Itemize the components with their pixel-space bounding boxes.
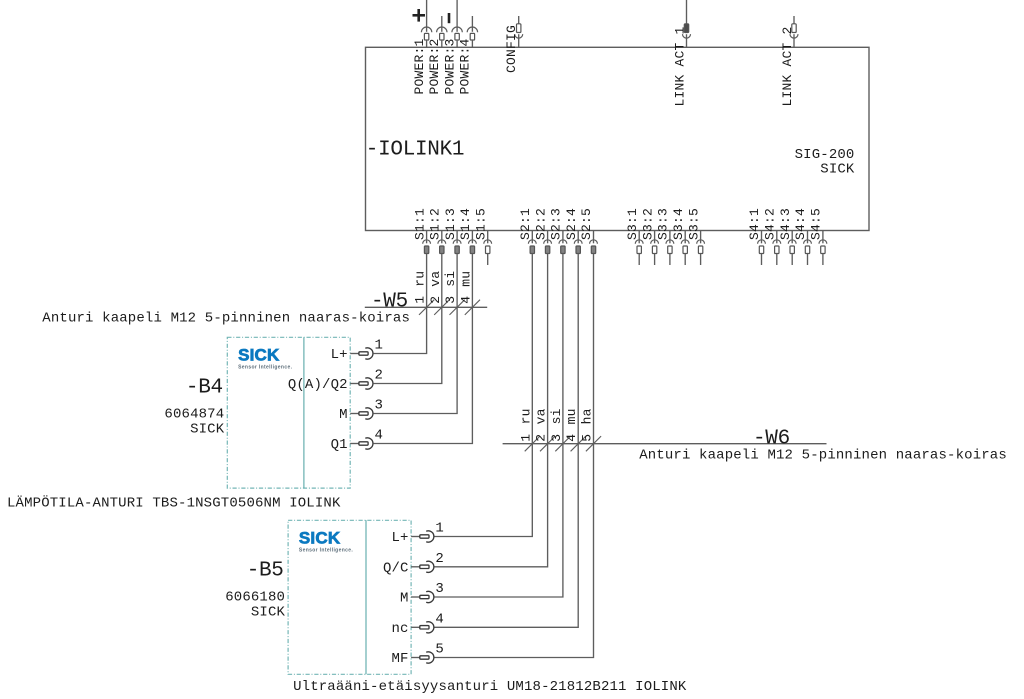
svg-text:mu: mu xyxy=(458,271,473,287)
cable -W6 conductor 1 slash xyxy=(525,436,540,451)
svg-text:S1:5: S1:5 xyxy=(473,208,488,240)
port pin S3:1 xyxy=(635,231,643,266)
cable -W6 conductor 3 slash xyxy=(555,436,570,451)
svg-text:Anturi kaapeli M12 5-pinninen: Anturi kaapeli M12 5-pinninen naaras-koi… xyxy=(42,311,410,327)
terminal pin POWER:4 xyxy=(467,27,477,47)
svg-text:S1:1: S1:1 xyxy=(412,208,427,240)
svg-text:ru: ru xyxy=(413,271,428,287)
svg-text:3: 3 xyxy=(435,581,444,597)
svg-text:3: 3 xyxy=(549,434,564,442)
wire S2:5 to -B5 pin 5 xyxy=(435,254,594,658)
port pin S3:3 xyxy=(666,231,674,266)
port pin S2:3 xyxy=(559,231,567,254)
svg-text:S4:1: S4:1 xyxy=(747,208,762,240)
sensor -B5 box xyxy=(288,520,411,674)
-B4 pin 1 connector symbol xyxy=(350,348,373,359)
-B5 pin 1 connector symbol xyxy=(411,531,434,542)
device box -IOLINK1 (SIG-200) xyxy=(366,47,870,230)
-B4 pin 2 connector symbol xyxy=(350,378,373,389)
svg-text:LINK ACT 1: LINK ACT 1 xyxy=(673,26,688,106)
port pin S4:3 xyxy=(788,231,796,266)
svg-text:5: 5 xyxy=(435,642,444,658)
port pin S3:2 xyxy=(651,231,659,266)
svg-text:MF: MF xyxy=(391,651,408,667)
wire to terminal POWER:2 xyxy=(441,16,443,32)
svg-text:4: 4 xyxy=(375,428,384,444)
svg-text:SICK: SICK xyxy=(238,345,280,364)
cable -W6 line xyxy=(503,443,827,445)
svg-text:Sensor Intelligence.: Sensor Intelligence. xyxy=(238,365,292,371)
svg-text:5: 5 xyxy=(580,434,595,442)
svg-text:Q(A)/Q2: Q(A)/Q2 xyxy=(288,377,348,393)
svg-text:S3:1: S3:1 xyxy=(625,208,640,240)
svg-text:SICK: SICK xyxy=(190,421,225,437)
port pin S2:4 xyxy=(574,231,582,254)
svg-text:2: 2 xyxy=(435,551,444,567)
svg-text:S3:3: S3:3 xyxy=(656,208,671,240)
svg-text:S3:2: S3:2 xyxy=(640,208,655,240)
svg-text:Sensor Intelligence.: Sensor Intelligence. xyxy=(299,548,353,554)
svg-text:4: 4 xyxy=(435,612,444,628)
port pin S4:2 xyxy=(773,231,781,266)
svg-text:S4:2: S4:2 xyxy=(763,208,778,240)
wire to terminal LINK ACT 1 xyxy=(686,0,688,24)
wire to terminal POWER:3 xyxy=(456,0,458,32)
wire S2:4 to -B5 pin 4 xyxy=(435,254,579,628)
svg-text:S4:3: S4:3 xyxy=(778,208,793,240)
svg-text:S1:4: S1:4 xyxy=(458,208,473,240)
svg-text:L+: L+ xyxy=(391,530,408,546)
terminal pin CONFIG xyxy=(515,24,523,48)
svg-text:2: 2 xyxy=(428,296,443,304)
port pin S1:2 xyxy=(438,231,446,254)
polarity - symbol xyxy=(448,13,451,23)
svg-text:Ultraääni-etäisyysanturi UM18-: Ultraääni-etäisyysanturi UM18-21812B211 … xyxy=(293,679,687,695)
svg-text:M: M xyxy=(400,591,409,607)
svg-text:mu: mu xyxy=(564,408,579,424)
wire to terminal POWER:4 xyxy=(471,16,473,32)
cable -W6 conductor 5 slash xyxy=(586,436,601,451)
port pin S1:3 xyxy=(453,231,461,254)
cable -W5 conductor 3 slash xyxy=(450,300,465,315)
terminal pin LINK ACT 2 xyxy=(790,24,798,48)
-B5 pin 2 connector symbol xyxy=(411,561,434,572)
svg-text:6066180: 6066180 xyxy=(225,589,285,605)
svg-text:LINK ACT 2: LINK ACT 2 xyxy=(780,26,795,106)
cable -W5 conductor 2 slash xyxy=(434,300,449,315)
svg-text:S4:4: S4:4 xyxy=(793,208,808,240)
sensor -B5 inner divider xyxy=(365,520,367,674)
svg-text:si: si xyxy=(443,271,458,287)
wire to terminal CONFIG xyxy=(518,16,520,24)
port pin S4:1 xyxy=(758,231,766,266)
port pin S4:4 xyxy=(804,231,812,266)
svg-text:SICK: SICK xyxy=(251,604,286,620)
svg-text:POWER:1: POWER:1 xyxy=(412,38,427,94)
svg-text:-B4: -B4 xyxy=(186,376,223,399)
-B4 pin 4 connector symbol xyxy=(350,438,373,449)
wire S2:1 to -B5 pin 1 xyxy=(435,254,533,537)
svg-text:S2:3: S2:3 xyxy=(549,208,564,240)
svg-text:SICK: SICK xyxy=(299,528,341,547)
port pin S1:5 xyxy=(484,231,492,266)
svg-text:S2:5: S2:5 xyxy=(579,208,594,240)
svg-text:6064874: 6064874 xyxy=(164,406,224,422)
svg-text:ru: ru xyxy=(518,408,533,424)
svg-text:Anturi kaapeli M12 5-pinninen: Anturi kaapeli M12 5-pinninen naaras-koi… xyxy=(639,448,1007,464)
svg-text:S3:4: S3:4 xyxy=(671,208,686,240)
svg-text:S4:5: S4:5 xyxy=(809,208,824,240)
svg-text:S1:3: S1:3 xyxy=(443,208,458,240)
svg-text:S2:2: S2:2 xyxy=(533,208,548,240)
wire S1:1 to -B4 pin 1 xyxy=(374,254,427,354)
svg-text:2: 2 xyxy=(534,434,549,442)
svg-text:4: 4 xyxy=(458,296,473,304)
sensor -B4 box xyxy=(227,337,350,488)
svg-text:S2:4: S2:4 xyxy=(564,208,579,240)
wire S1:4 to -B4 pin 4 xyxy=(374,254,473,444)
port pin S1:1 xyxy=(423,231,431,254)
terminal pin POWER:2 xyxy=(437,27,447,47)
port pin S1:4 xyxy=(468,231,476,254)
svg-text:POWER:3: POWER:3 xyxy=(442,38,457,94)
wire to terminal LINK ACT 2 xyxy=(793,16,795,24)
cable -W5 conductor 4 slash xyxy=(465,300,480,315)
svg-text:va: va xyxy=(534,408,549,424)
svg-text:S1:2: S1:2 xyxy=(428,208,443,240)
svg-text:3: 3 xyxy=(375,398,384,414)
svg-text:M: M xyxy=(339,407,348,423)
svg-text:va: va xyxy=(428,271,443,287)
cable -W5 conductor 1 slash xyxy=(419,300,434,315)
-B5 pin 3 connector symbol xyxy=(411,591,434,602)
svg-text:SICK: SICK xyxy=(820,162,855,178)
polarity + symbol xyxy=(413,9,426,22)
terminal pin POWER:3 xyxy=(452,27,462,47)
svg-text:LÄMPÖTILA-ANTURI TBS-1NSGT0506: LÄMPÖTILA-ANTURI TBS-1NSGT0506NM IOLINK xyxy=(7,494,341,512)
svg-text:1: 1 xyxy=(375,338,384,354)
svg-text:3: 3 xyxy=(443,296,458,304)
port pin S2:1 xyxy=(528,231,536,254)
svg-text:1: 1 xyxy=(518,434,533,442)
svg-text:1: 1 xyxy=(413,296,428,304)
wire S2:2 to -B5 pin 2 xyxy=(435,254,548,567)
svg-text:Q/C: Q/C xyxy=(383,560,409,576)
port pin S4:5 xyxy=(819,231,827,266)
cable -W6 conductor 2 slash xyxy=(540,436,555,451)
svg-text:4: 4 xyxy=(564,434,579,442)
port pin S3:5 xyxy=(697,231,705,266)
port pin S3:4 xyxy=(681,231,689,266)
svg-text:POWER:2: POWER:2 xyxy=(427,38,442,94)
port pin S2:2 xyxy=(544,231,552,254)
svg-text:CONFIG: CONFIG xyxy=(504,25,519,73)
terminal pin POWER:1 xyxy=(421,27,431,47)
wire S1:3 to -B4 pin 3 xyxy=(374,254,458,414)
svg-text:2: 2 xyxy=(375,368,384,384)
cable -W5 line xyxy=(365,306,487,308)
svg-text:S3:5: S3:5 xyxy=(686,208,701,240)
svg-text:si: si xyxy=(549,408,564,424)
svg-text:nc: nc xyxy=(391,621,408,637)
terminal pin LINK ACT 1 xyxy=(683,24,691,48)
sensor -B4 inner divider xyxy=(303,337,305,488)
port pin S2:5 xyxy=(590,231,598,254)
cable -W6 conductor 4 slash xyxy=(571,436,586,451)
wire S2:3 to -B5 pin 3 xyxy=(435,254,563,598)
svg-text:L+: L+ xyxy=(331,347,348,363)
svg-text:-B5: -B5 xyxy=(247,559,284,582)
wire S1:2 to -B4 pin 2 xyxy=(374,254,442,384)
svg-text:ha: ha xyxy=(580,408,595,424)
svg-text:S2:1: S2:1 xyxy=(518,208,533,240)
svg-text:1: 1 xyxy=(435,521,444,537)
svg-text:POWER:4: POWER:4 xyxy=(458,38,473,94)
-B5 pin 4 connector symbol xyxy=(411,622,434,633)
-B5 pin 5 connector symbol xyxy=(411,652,434,663)
-B4 pin 3 connector symbol xyxy=(350,408,373,419)
svg-text:-IOLINK1: -IOLINK1 xyxy=(366,138,464,161)
wire to terminal POWER:1 xyxy=(426,0,428,32)
svg-text:Q1: Q1 xyxy=(331,437,348,453)
